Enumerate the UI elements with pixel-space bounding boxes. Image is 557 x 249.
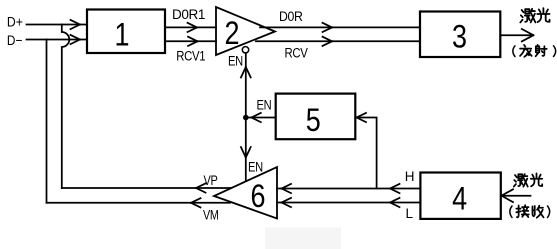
svg-text:D0R: D0R [279,9,303,24]
svg-text:VM: VM [203,208,219,223]
wire D+ [27,24,88,26]
arrow VP [196,183,206,192]
arrow EN from U5 [251,113,260,122]
wire D- [27,39,88,41]
paren open tx [513,46,515,57]
wire VP [62,187,231,189]
wire VM [47,202,231,204]
svg-text:RCV1: RCV1 [176,49,205,64]
svg-text:L: L [406,206,414,221]
paren open rx [510,206,512,218]
wire H [277,188,420,190]
junction EN node [243,115,249,121]
svg-text:D−: D− [7,32,23,48]
wire EN to U5 [246,117,276,119]
arrow VM [191,198,201,207]
block U1 [87,10,165,54]
block U3 [420,12,500,58]
glyph jie (receive) [516,205,528,217]
glyph ji (laser) rx [514,174,528,187]
arrow D0R into U3 [323,23,333,32]
svg-text:4: 4 [452,181,467,217]
svg-text:2: 2 [225,15,240,51]
arrow RCV1 [188,37,198,46]
glyph shou (collect) [532,206,543,218]
wire D0R1 [165,26,216,28]
glyph guang (light) rx [531,173,542,186]
wire U5 right [355,118,376,189]
paren close tx [554,46,556,57]
arrow laser into U4 [502,189,514,202]
svg-text:3: 3 [452,18,467,54]
wire D- branch down [46,40,48,203]
glyph she (shoot) [536,45,547,56]
arrow laser out [522,29,534,41]
svg-text:D+: D+ [7,14,23,30]
arrow into U5 right [357,113,367,122]
svg-text:D0R1: D0R1 [172,7,205,22]
arrow L into U6 [282,198,292,207]
svg-text:RCV: RCV [285,45,308,60]
block U5 [276,94,356,140]
wire RCV [256,40,420,42]
svg-text:5: 5 [306,102,321,138]
block U4 [420,173,500,219]
arrow EN down to U6 [241,147,251,158]
wire RCV1 [165,40,216,42]
watermark remnant [265,228,341,249]
svg-text:EN: EN [248,159,263,174]
arrow EN up to bubble [241,67,251,78]
svg-text:1: 1 [115,16,130,52]
svg-text:EN: EN [257,98,272,113]
wire L [277,202,420,204]
buffer U2 [216,7,275,55]
buffer U6 [214,167,277,219]
glyph guang (light) tx [537,8,549,22]
wire D+ branch down with hop [62,25,70,189]
wire EN vertical [245,53,247,181]
arrow D0R1 [188,23,198,32]
glyph ji (laser) tx [520,9,535,23]
arrow L from U4 [390,198,400,207]
svg-text:H: H [405,169,414,184]
label laser-RX chinese [510,173,550,217]
svg-text:EN: EN [228,54,243,69]
enable bubble on U2 [242,47,248,53]
paren close rx [548,206,550,218]
wire laser out [500,34,532,36]
wire D0R [260,26,420,28]
glyph fa (emit) [520,45,532,57]
wire laser in [501,195,531,197]
svg-text:VP: VP [204,173,218,188]
arrow RCV into U3 [323,37,333,46]
svg-text:6: 6 [251,178,266,214]
label laser-TX chinese [513,8,556,57]
arrow D- into U1 [71,35,81,44]
arrow H into U6 [282,184,292,193]
arrow D+ into U1 [71,20,81,29]
arrow H from U4 [390,184,400,193]
